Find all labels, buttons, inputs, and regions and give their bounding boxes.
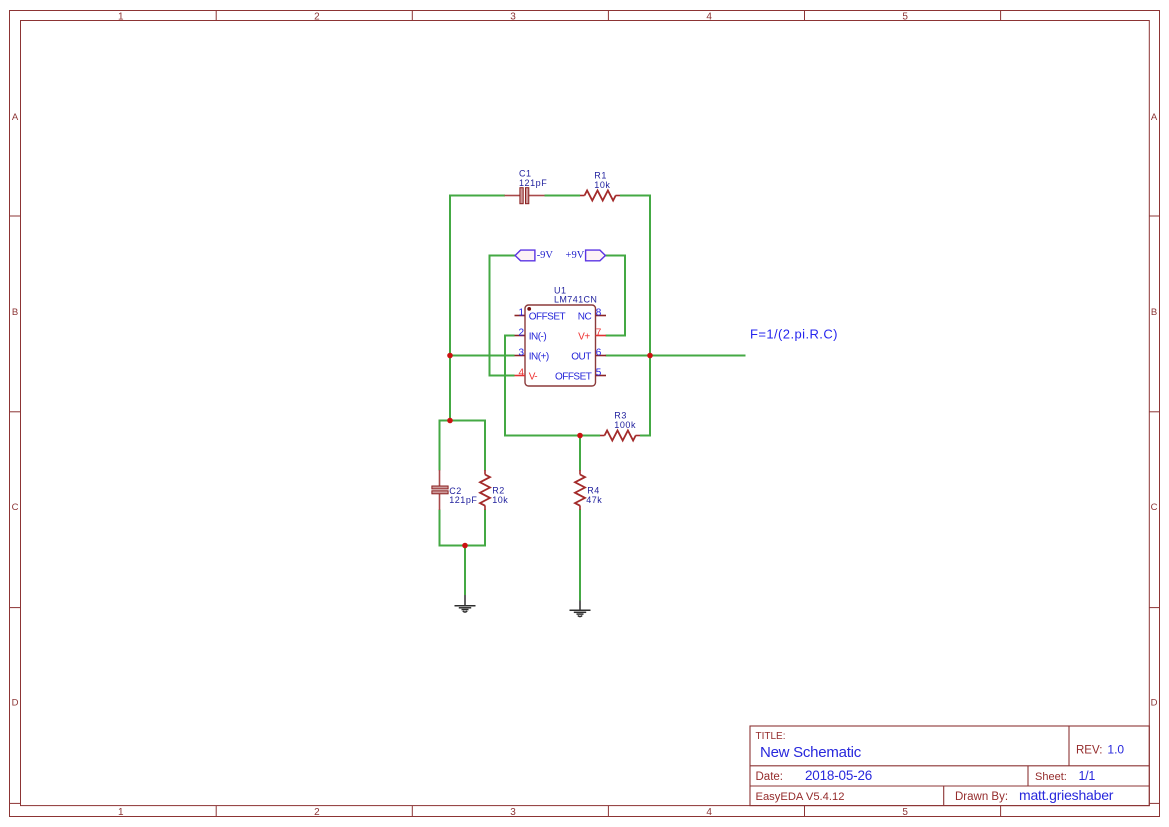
pin 6 stub [596, 355, 607, 357]
ground GND2 [570, 601, 591, 617]
svg-text:121pF: 121pF [449, 495, 477, 505]
wire between C1 and R1 [545, 195, 581, 197]
title block [750, 726, 1149, 806]
resistor R3 [600, 431, 640, 441]
svg-text:LM741CN: LM741CN [554, 295, 597, 305]
frame row letters right [1151, 112, 1158, 709]
svg-text:2: 2 [314, 11, 320, 22]
svg-text:matt.grieshaber: matt.grieshaber [1019, 787, 1114, 803]
svg-text:Sheet:: Sheet: [1035, 771, 1067, 783]
junction node C2R2 top [447, 418, 453, 424]
junction node at output [647, 353, 653, 359]
svg-text:121pF: 121pF [519, 178, 547, 188]
pin 5 stub [596, 375, 607, 377]
svg-text:5: 5 [902, 807, 908, 818]
frame column numbers bottom [118, 807, 908, 818]
svg-text:TITLE:: TITLE: [756, 731, 786, 742]
svg-text:REV:: REV: [1076, 745, 1102, 757]
svg-text:Date:: Date: [756, 771, 784, 783]
wire +9V flag lead [606, 256, 626, 336]
wire C2 R2 bottom [440, 510, 486, 546]
svg-text:A: A [12, 112, 19, 123]
svg-text:-9V: -9V [537, 250, 554, 261]
svg-text:D: D [1151, 698, 1158, 709]
frame column numbers top [118, 11, 908, 22]
resistor R4 [575, 470, 585, 510]
wire ground tap [464, 546, 466, 596]
svg-text:5: 5 [596, 367, 602, 378]
wire C2 R2 top [440, 421, 486, 471]
resistor R1 [580, 191, 620, 201]
junction node R3 R4 [577, 433, 583, 439]
wire IN- feedback [505, 336, 580, 436]
wire R3 right [640, 435, 651, 437]
svg-text:10k: 10k [492, 495, 508, 505]
svg-text:NC: NC [578, 312, 592, 323]
svg-text:New Schematic: New Schematic [760, 744, 862, 761]
svg-text:4: 4 [706, 11, 712, 22]
svg-text:R3: R3 [614, 411, 627, 421]
svg-text:1/1: 1/1 [1079, 769, 1096, 783]
pin 2 stub [515, 335, 526, 337]
wire top left horizontal [450, 195, 505, 197]
wire output [606, 355, 746, 357]
svg-text:V+: V+ [578, 332, 590, 343]
svg-text:100k: 100k [614, 420, 636, 430]
pin 7 stub [596, 335, 607, 337]
svg-text:OFFSET: OFFSET [555, 372, 592, 383]
wire R1 to right corner [620, 195, 651, 197]
svg-text:C: C [12, 502, 19, 513]
svg-text:4: 4 [706, 807, 712, 818]
wire right vertical [649, 195, 651, 436]
svg-text:IN(+): IN(+) [529, 352, 549, 363]
svg-text:B: B [1151, 307, 1157, 318]
svg-text:2018-05-26: 2018-05-26 [805, 768, 872, 783]
svg-text:1: 1 [118, 807, 124, 818]
svg-text:3: 3 [518, 347, 524, 358]
svg-text:D: D [12, 698, 19, 709]
capacitor C1 [505, 188, 545, 204]
svg-text:V-: V- [529, 372, 538, 383]
svg-text:+9V: +9V [566, 250, 585, 261]
svg-text:47k: 47k [586, 495, 602, 505]
svg-text:2: 2 [518, 327, 524, 338]
svg-text:1: 1 [118, 11, 124, 22]
svg-text:10k: 10k [594, 180, 610, 190]
junction node at IN+ [447, 353, 453, 359]
svg-text:2: 2 [314, 807, 320, 818]
svg-text:OUT: OUT [571, 352, 591, 363]
op-amp U1 [525, 305, 596, 386]
junction node C2R2 bottom [462, 543, 468, 549]
wire R4 top [579, 436, 581, 471]
svg-text:A: A [1151, 112, 1158, 123]
svg-text:4: 4 [518, 367, 524, 378]
svg-text:8: 8 [596, 307, 602, 318]
svg-text:C: C [1151, 502, 1158, 513]
ground GND1 [455, 595, 476, 612]
wire to IN+ [450, 355, 515, 357]
wire left vertical [449, 195, 451, 421]
frame row letters left [12, 112, 19, 709]
power flag -9V [515, 250, 553, 261]
wire -9V flag lead [490, 256, 516, 376]
svg-text:7: 7 [596, 327, 602, 338]
capacitor C2 [432, 470, 448, 510]
svg-text:C1: C1 [519, 168, 532, 178]
wire R4 to ground [579, 510, 581, 601]
svg-text:OFFSET: OFFSET [529, 312, 566, 323]
svg-text:3: 3 [510, 11, 516, 22]
pin 4 stub [515, 375, 526, 377]
pin 1 stub [515, 315, 526, 317]
wire R3 row left [580, 435, 600, 437]
svg-text:F=1/(2.pi.R.C): F=1/(2.pi.R.C) [750, 326, 838, 341]
pin 3 stub [515, 355, 526, 357]
pin 8 stub [596, 315, 607, 317]
svg-text:1: 1 [518, 307, 524, 318]
svg-text:5: 5 [902, 11, 908, 22]
svg-text:6: 6 [596, 347, 602, 358]
svg-text:1.0: 1.0 [1107, 743, 1124, 757]
power flag +9V [566, 250, 606, 261]
svg-text:IN(-): IN(-) [529, 332, 547, 343]
svg-text:3: 3 [510, 807, 516, 818]
resistor R2 [480, 470, 490, 510]
svg-text:Drawn By:: Drawn By: [955, 791, 1008, 803]
svg-text:B: B [12, 307, 18, 318]
svg-text:EasyEDA V5.4.12: EasyEDA V5.4.12 [756, 791, 845, 803]
